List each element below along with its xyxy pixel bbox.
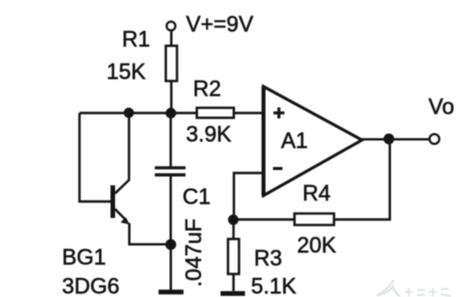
svg-text:BG1: BG1 bbox=[62, 245, 106, 270]
svg-text:15K: 15K bbox=[107, 59, 146, 84]
wire bbox=[234, 112, 263, 114]
wire C1 top bbox=[169, 113, 171, 166]
watermark swoosh bbox=[377, 280, 400, 297]
node junction emitter/C1 bbox=[165, 239, 176, 250]
wire to R3 bbox=[232, 220, 234, 239]
svg-text:R2: R2 bbox=[193, 76, 221, 101]
wire feedback vertical bbox=[334, 139, 390, 219]
ground under C1 bbox=[159, 290, 184, 295]
resistor R3 bbox=[228, 239, 239, 274]
svg-text:V+=9V: V+=9V bbox=[186, 12, 254, 37]
resistor R4 bbox=[295, 214, 335, 226]
svg-text:20K: 20K bbox=[297, 233, 336, 258]
wire bbox=[170, 81, 172, 113]
ground under R3 bbox=[221, 291, 246, 296]
svg-text:C1: C1 bbox=[183, 184, 211, 209]
op-amp minus sign bbox=[273, 167, 283, 170]
node junction R1 bottom bbox=[166, 108, 177, 119]
svg-text:3.9K: 3.9K bbox=[186, 122, 232, 147]
wire to ground bbox=[170, 245, 172, 291]
wire bbox=[170, 31, 172, 47]
wire C1 bottom bbox=[169, 177, 171, 245]
node V+ terminal bbox=[167, 22, 176, 31]
op-amp A1 body bbox=[264, 87, 363, 196]
transistor BG1 base bar bbox=[111, 185, 116, 218]
svg-text:R3: R3 bbox=[254, 246, 282, 271]
resistor R2 bbox=[197, 108, 234, 118]
transistor BG1 collector bbox=[115, 113, 129, 194]
resistor R1 bbox=[166, 46, 177, 81]
wire R3 to ground bbox=[232, 274, 234, 291]
watermark text bbox=[405, 288, 451, 297]
transistor BG1 emitter bbox=[115, 209, 127, 221]
capacitor C1 bottom plate bbox=[155, 173, 186, 176]
wire top rail bbox=[80, 112, 198, 114]
svg-text:R4: R4 bbox=[303, 181, 331, 206]
svg-text:5.1K: 5.1K bbox=[251, 274, 297, 297]
svg-text:A1: A1 bbox=[281, 128, 308, 153]
node Vo terminal bbox=[430, 134, 440, 144]
transistor BG1 emitter arrowhead bbox=[121, 217, 130, 224]
capacitor C1 top plate bbox=[155, 166, 186, 169]
op-amp A1 left edge bbox=[262, 86, 266, 196]
node junction output bbox=[384, 134, 395, 145]
svg-text:.047uF: .047uF bbox=[181, 219, 206, 288]
wire output bbox=[362, 138, 430, 140]
svg-text:R1: R1 bbox=[122, 27, 150, 52]
op-amp plus sign bbox=[273, 111, 284, 114]
svg-text:3DG6: 3DG6 bbox=[62, 274, 119, 297]
wire bbox=[233, 218, 294, 220]
svg-text:Vo: Vo bbox=[429, 94, 455, 119]
wire inverting input bbox=[234, 173, 263, 220]
wire left branch to base bbox=[80, 113, 112, 202]
wire emitter down bbox=[129, 223, 171, 244]
node junction collector bbox=[124, 108, 134, 118]
node junction inverting bbox=[228, 215, 239, 226]
